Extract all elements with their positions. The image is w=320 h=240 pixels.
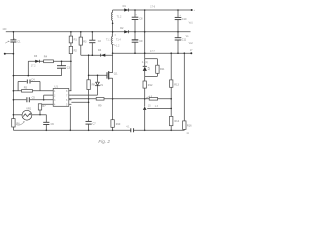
svg-text:100: 100	[2, 28, 7, 31]
resistor R10	[111, 120, 114, 128]
svg-text:VR1: VR1	[26, 107, 31, 110]
wire: vertical x=144.7 between rails	[144, 10, 146, 59]
resistor R7	[38, 104, 41, 110]
resistor R16	[183, 121, 186, 129]
wire: gate ladder vertical x=88.6	[88, 55, 90, 80]
wire: pin 3 line y=99.8 with C5 inline	[13, 99, 53, 101]
svg-text:17-6: 17-6	[150, 6, 155, 9]
svg-text:T1.1: T1.1	[106, 39, 111, 42]
resistor R1	[70, 32, 72, 36]
divider vertical P x=171.2	[170, 53, 172, 80]
wire: C2 bottom down to clamp line	[91, 43, 93, 55]
diode D1 (top rail)	[124, 8, 128, 11]
resistor R3	[80, 32, 82, 37]
transformer T1 winding 1.2 (upper)	[112, 12, 113, 20]
node: top rail right terminal	[191, 9, 193, 11]
diode D2 (mid rail)	[124, 30, 128, 33]
transformer T1 center vertical x=112.6	[112, 10, 114, 12]
capacitor C5 (inline)	[27, 97, 29, 102]
op-amp/controller U1	[53, 89, 69, 107]
capacitor C1 (input electrolytic)	[10, 39, 16, 41]
capacitor C9 (x=135 lower)	[132, 39, 139, 41]
capacitor C8 (x=135 upper)	[134, 10, 136, 17]
wire: SCR gate line y=108.4	[147, 107, 171, 109]
resistor R12	[144, 76, 146, 81]
wire: R3 bottom to clamp line	[80, 45, 82, 55]
wire: clamp diode line y=55.2	[81, 54, 113, 56]
svg-text:T1.4: T1.4	[116, 39, 121, 42]
wire: MOSFET gate line y=75.3	[89, 74, 107, 76]
svg-text:Fig. 2: Fig. 2	[98, 139, 110, 144]
resistor R4	[44, 60, 54, 63]
wire: main left vertical bus x=13.4 (lower part)	[12, 42, 14, 130]
wire: corner to C6	[45, 115, 47, 123]
capacitor C3	[61, 61, 63, 65]
callout arc to VR1	[16, 122, 24, 125]
wire: pin 4 line with drop	[40, 104, 53, 115]
wire: diode/R4 line y=61.3	[28, 60, 71, 62]
resistor R15 (inline)	[149, 98, 157, 101]
wire: main horizontal supply rail y=31.8	[6, 31, 191, 33]
svg-text:R13: R13	[174, 83, 179, 86]
svg-text:17.7: 17.7	[150, 50, 155, 53]
load vertical Q x=184.3	[183, 53, 185, 121]
photoresistor VR1	[13, 114, 22, 116]
polarity dots	[112, 35, 113, 36]
callout arrow to C1	[5, 41, 9, 43]
svg-text:R10: R10	[116, 123, 121, 126]
zener Z1	[97, 75, 99, 82]
resistor R6	[12, 119, 15, 127]
wire: right pin stubs	[69, 91, 72, 105]
LED arrows	[148, 67, 150, 70]
wire: reference numeral drop x=28.3	[27, 61, 29, 75]
wire: bottom ground rail y=130.3	[13, 129, 184, 131]
resistor R13	[170, 80, 173, 87]
svg-text:R11: R11	[160, 68, 165, 71]
wire: pin 1 line y=90.8	[13, 90, 53, 92]
svg-text:T1.2: T1.2	[117, 16, 122, 19]
label 1.2 callout	[113, 44, 116, 45]
svg-text:C10: C10	[182, 18, 187, 21]
svg-text:R12: R12	[148, 84, 153, 87]
svg-text:Vo2: Vo2	[189, 42, 194, 45]
wire: ladder down to C7	[88, 99, 90, 122]
wire: top output rail y=10 from transformer top to right terminal	[113, 9, 192, 11]
svg-text:17.2: 17.2	[31, 64, 36, 67]
node: input terminal stub	[5, 53, 14, 55]
node: output line right terminal	[190, 52, 192, 54]
resistor R5 (inline pin1 line)	[22, 90, 33, 93]
wire: MOSFET source down to feedback line and sense resistor	[112, 78, 114, 120]
wire: pin5 line joining ladder	[71, 101, 88, 103]
capacitor C12 (inline in ground rail)	[131, 128, 134, 132]
capacitor C4 (parallel loop above R5)	[18, 82, 27, 91]
svg-text:U1: U1	[54, 84, 58, 88]
svg-text:2.2(1): 2.2(1)	[142, 61, 148, 64]
transistor Q1 (MOSFET)	[106, 72, 108, 78]
wire: zener to IC pin 7 line y=95.1	[71, 94, 97, 96]
svg-text:R16: R16	[187, 125, 192, 128]
wire: between windings	[112, 20, 114, 36]
wire: feedback line y=98.8 from IC to divider	[69, 98, 171, 100]
svg-text:C11: C11	[182, 38, 187, 41]
wire: winding bottom down to MOSFET drain	[112, 44, 114, 72]
capacitor C2	[91, 32, 93, 40]
capacitor C10 (x=178 upper)	[177, 10, 179, 17]
wire: R2 bottom down to IC pin 8	[70, 54, 72, 91]
thyristor SCR1 (black, points up)	[143, 107, 147, 110]
wire: ground-side rail y=75.6	[13, 75, 61, 77]
wire: R8 bottom to feedback line	[88, 90, 90, 99]
resistor R11 (parallel branch)	[156, 59, 158, 65]
bracket bottom	[145, 75, 158, 77]
resistor R14	[170, 116, 173, 125]
label 4.9 callout	[146, 97, 149, 99]
diode D4 (points left)	[101, 54, 105, 57]
diode D3	[35, 60, 39, 63]
capacitor C6	[43, 121, 49, 123]
LED DZ (black, points down)	[144, 59, 146, 66]
resistor R9 (inline)	[96, 98, 104, 101]
resistor R2	[70, 43, 72, 47]
svg-text:Q1: Q1	[114, 71, 118, 75]
wire: pin5 area drop to ground	[69, 106, 71, 130]
capacitor C11 (x=178 lower)	[175, 37, 182, 39]
wire: R12 bottom to feedback line	[144, 88, 146, 106]
capacitor C7	[86, 120, 92, 122]
zener/LED shunt branch bracket top	[145, 58, 158, 60]
svg-text:Vo1: Vo1	[189, 21, 194, 24]
transformer T1 winding 1.1 (lower)	[112, 36, 113, 44]
svg-text:R14: R14	[175, 120, 180, 123]
wire: pin 2 line with corner	[44, 95, 54, 100]
resistor R8	[87, 80, 90, 90]
wire: main left vertical bus x=13.4 (upper part, gap at C1)	[12, 32, 14, 40]
wire: output line y=53.2	[113, 52, 192, 54]
wire: SCR cathode to bottom rail	[144, 110, 146, 130]
